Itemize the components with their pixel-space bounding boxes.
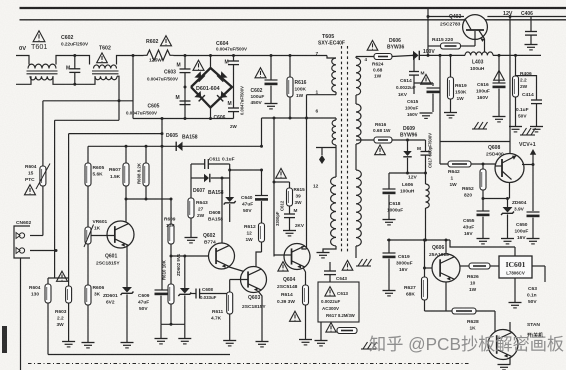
wire 12V sec node: [389, 172, 426, 174]
wire base rail y256: [171, 255, 216, 257]
wire IC601 input top: [514, 247, 516, 256]
wire Q603 base: [230, 279, 248, 281]
wire Q601 emitter: [126, 245, 128, 287]
wire to Q605 base: [494, 311, 496, 337]
resistor R415: [428, 45, 441, 47]
wire secondary bottom: [355, 246, 357, 258]
wire T602 upper out: [117, 56, 144, 65]
scan grain overlay: [0, 0, 1, 1]
warning triangle R603: [56, 271, 67, 281]
warning triangle below box: [326, 323, 336, 332]
wire collector rail y199: [126, 198, 171, 200]
resistor R610: [170, 256, 172, 284]
wire ZD602 gnd drop: [184, 324, 186, 338]
wire secondary tap1: [355, 57, 357, 59]
resistor R627: [422, 277, 428, 300]
ground C650: [527, 238, 540, 240]
wire rail bridge return: [133, 118, 234, 120]
resistor R617: [337, 328, 357, 334]
inductor L403: [465, 52, 493, 56]
capacitor C617: [425, 140, 427, 152]
wire T602 lower out: [117, 76, 119, 120]
capacitor C618: [388, 173, 390, 189]
wire zener node: [483, 198, 508, 200]
resistor R626: [460, 265, 469, 267]
wire bottom return: [48, 354, 230, 356]
capacitor C602 bulk electrolytic: [270, 56, 272, 81]
transformer T605 primary winding upper: [332, 58, 336, 92]
wire Q601 base: [91, 235, 115, 237]
resistor R619: [450, 55, 452, 77]
transistor Q601: [107, 221, 134, 248]
resistor R607: [125, 146, 127, 163]
capacitor C650: [532, 210, 534, 212]
wire long drop 12V: [509, 17, 511, 155]
ground R406: [509, 126, 522, 128]
wire primary bottom to ground: [323, 246, 336, 252]
wire Q605 emitter: [509, 357, 511, 364]
frame left vertical: [20, 258, 22, 370]
wire bridge bottom: [210, 108, 212, 119]
resistor R608: [145, 146, 147, 163]
wire C609 gnd drop: [160, 324, 162, 338]
wire rail x274 drop: [273, 118, 275, 255]
capacitor C614: [413, 55, 415, 71]
wire PTC to connector: [42, 186, 44, 236]
capacitor C616: [498, 55, 500, 83]
capacitor C605: [184, 87, 186, 119]
slant ground secondary: [358, 259, 363, 266]
ground transformer aux: [320, 322, 322, 340]
transistor Q604: [284, 244, 310, 270]
warning triangle R602: [160, 36, 171, 46]
wire rail y240: [387, 239, 450, 241]
frame scan bar: [2, 326, 7, 353]
wire x162 long drop: [161, 119, 163, 291]
diode D607: [191, 177, 204, 179]
wire rail after L403: [493, 54, 541, 56]
resistor R609: [170, 199, 172, 224]
wire AC neutral input: [16, 76, 31, 84]
wire Q606 emitter up: [445, 240, 447, 254]
capacitor C602 X-cap: [74, 56, 76, 69]
transformer T601 lower winding: [30, 76, 53, 80]
zener ZD601: [122, 287, 132, 293]
ground C615: [420, 112, 433, 114]
capacitor C615: [421, 74, 432, 84]
ground C655: [477, 238, 490, 240]
wire dashed border: [28, 363, 470, 365]
wire x56 drop: [54, 120, 56, 250]
warning triangle Q604: [278, 262, 288, 271]
resistor R605: [87, 146, 89, 163]
transistor Q606: [432, 254, 460, 282]
capacitor C611: [191, 163, 205, 165]
transistor Q602: [209, 243, 235, 269]
warning triangle R624: [367, 40, 378, 50]
capacitor C655: [482, 199, 484, 212]
wire box verticals: [190, 164, 192, 178]
wire Q606 collector down: [445, 282, 447, 311]
ground IC601: [509, 302, 522, 304]
transformer T605 primary winding lower: [331, 177, 336, 246]
wire T601 upper out: [56, 56, 75, 65]
wire Q604 emitter: [303, 268, 306, 286]
zener ZD604: [507, 199, 509, 208]
wire to T602 lower: [75, 76, 95, 84]
wire 100V rail: [420, 54, 465, 56]
warning triangle T601: [33, 31, 45, 42]
diode D605: [177, 142, 183, 151]
resistor R604b: [45, 284, 51, 303]
wire rail B drop to R415: [427, 8, 429, 55]
ground C619: [383, 290, 396, 292]
wire R612 to Q603: [256, 252, 262, 267]
resistor R406: [515, 55, 517, 76]
capacitor C643: [329, 262, 331, 271]
wire Q601 collector: [125, 199, 127, 222]
slant ground top1: [474, 122, 479, 129]
wire Q606 base: [425, 267, 433, 269]
wire Q608 emitter to VCV: [522, 164, 533, 166]
wire secondary tap2: [356, 139, 374, 141]
resistor R603: [66, 286, 72, 303]
transformer T602 lower winding: [95, 76, 117, 79]
wire rail y120: [55, 119, 119, 121]
wire connector pin2: [30, 250, 56, 252]
capacitor C609: [155, 289, 168, 291]
resistor R628: [425, 310, 453, 312]
ground Q603: [256, 341, 269, 343]
wire D605 rail: [88, 145, 262, 147]
ground C602: [265, 103, 278, 105]
ground R611: [223, 340, 236, 342]
warning triangle C602: [255, 68, 266, 78]
ground Q605: [498, 364, 511, 366]
resistor R642: [448, 161, 471, 167]
wire rail y133: [69, 133, 162, 135]
resistor R652: [482, 164, 484, 169]
wire Q602 emitter to Q603: [228, 267, 245, 272]
wire rail y118: [262, 117, 337, 119]
ground ZD602: [178, 338, 191, 340]
wire IC601 gnd: [514, 278, 516, 302]
ground C618: [383, 219, 396, 221]
capacitor C619: [388, 240, 390, 253]
resistor R616b: [374, 137, 392, 143]
wire main rail 310V: [174, 55, 328, 57]
ground ZD601: [121, 342, 134, 344]
wire R624 to D606: [392, 55, 413, 56]
wire base drop: [424, 240, 426, 277]
ground C612: [283, 230, 296, 232]
wire pin1: [307, 94, 337, 96]
wire Q603 emitter: [258, 291, 262, 341]
ground T605 primary: [317, 252, 330, 254]
resistor R604 PTC: [40, 166, 46, 186]
slant ground R617: [363, 342, 368, 349]
transistor Q605 standby: [488, 330, 518, 360]
resistor R624: [374, 54, 392, 60]
wire IC601 output: [532, 265, 545, 267]
wire Q602 collector: [221, 178, 223, 244]
wire Q403 base: [474, 31, 476, 46]
capacitor C640: [261, 170, 263, 196]
wire 100V drop x440: [439, 55, 441, 141]
ground R614: [299, 339, 312, 341]
wire top bus A: [20, 7, 566, 9]
wire rail x261 drop: [261, 118, 263, 146]
inductor L606: [425, 173, 427, 184]
warning triangle R615: [276, 168, 287, 178]
capacitor C603: [184, 56, 186, 70]
wire pin tap arrow: [335, 145, 337, 177]
warning triangle near core ground: [342, 260, 353, 270]
resistor R614: [303, 285, 309, 305]
transistor Q608: [495, 154, 524, 183]
ground C406: [525, 44, 538, 46]
diode D606: [413, 51, 419, 60]
warning triangle R616b: [375, 145, 386, 155]
resistor R616 startup: [289, 56, 291, 78]
resistor R611: [227, 292, 233, 314]
transformer T605 core: [341, 46, 343, 252]
zener D608: [229, 178, 231, 197]
transformer T601 upper winding: [28, 64, 56, 68]
wire Q604 base: [274, 254, 292, 256]
ground R603: [62, 341, 75, 343]
wire rail to pin7: [327, 56, 336, 59]
wire box to C640: [230, 169, 262, 171]
wire Q403 emitter: [484, 39, 486, 52]
wire branch x133: [132, 56, 134, 119]
wire Q608 collector: [509, 183, 511, 199]
slant ground top2: [522, 128, 527, 135]
diode D609: [392, 139, 426, 141]
resistor R612: [259, 223, 265, 242]
wire gnd rail y324: [161, 323, 185, 325]
wire T601 lower out: [53, 76, 75, 84]
warning triangle R614: [289, 311, 300, 321]
transformer T605 secondary winding upper: [356, 58, 361, 95]
wire x69 drop: [68, 134, 70, 286]
transformer T601 core: [27, 70, 58, 72]
resistor R602: [144, 50, 174, 61]
transformer T602 upper winding: [94, 65, 117, 69]
ground C616: [493, 116, 506, 118]
capacitor C606: [233, 87, 235, 108]
capacitor C608: [190, 293, 196, 295]
ground R643: [185, 237, 198, 239]
warning triangle bridge: [193, 60, 204, 70]
ground C414: [530, 126, 543, 128]
wire VCV rail: [440, 141, 510, 143]
zener ZD602: [184, 256, 186, 288]
wire VR601 to R606: [87, 244, 89, 285]
transformer T602 core: [92, 70, 119, 72]
wire top bus B: [20, 19, 566, 21]
wire to T602 upper: [75, 56, 90, 65]
wire 12V rail right: [487, 16, 566, 18]
resistor R643: [190, 178, 192, 198]
resistor R606: [85, 285, 91, 305]
ground ZD604: [501, 238, 514, 240]
wire x43 drop: [42, 101, 44, 166]
variable resistor VR601: [85, 227, 91, 244]
transformer T605 secondary winding lower: [356, 170, 361, 246]
wire R615 tap: [274, 181, 290, 183]
ground R619: [444, 112, 457, 114]
warning triangle T602: [97, 53, 108, 63]
bridge rectifier D601-604: [191, 68, 232, 108]
wire AC live input: [16, 56, 29, 65]
wire resistor spread: [48, 277, 69, 279]
wire pin1 drop: [306, 95, 308, 118]
wire 12V collector rail: [428, 16, 464, 18]
transformer T605 primary winding mid: [335, 118, 337, 120]
resistor R615: [289, 182, 291, 188]
warning triangle PTC: [24, 185, 35, 195]
ground R606: [82, 342, 95, 344]
capacitor C612: [284, 213, 295, 215]
wire rail y100: [43, 100, 133, 102]
wire Q604 collector: [306, 118, 308, 249]
wire bridge top: [210, 56, 212, 69]
transistor Q403: [463, 15, 488, 40]
ground C609: [155, 338, 168, 340]
transformer T605 secondary winding mid: [356, 104, 361, 144]
op-amp IC601 regulator: [499, 256, 532, 278]
capacitor C604: [233, 56, 235, 62]
capacitor C613 box: [318, 282, 359, 322]
transistor Q603: [241, 267, 267, 293]
